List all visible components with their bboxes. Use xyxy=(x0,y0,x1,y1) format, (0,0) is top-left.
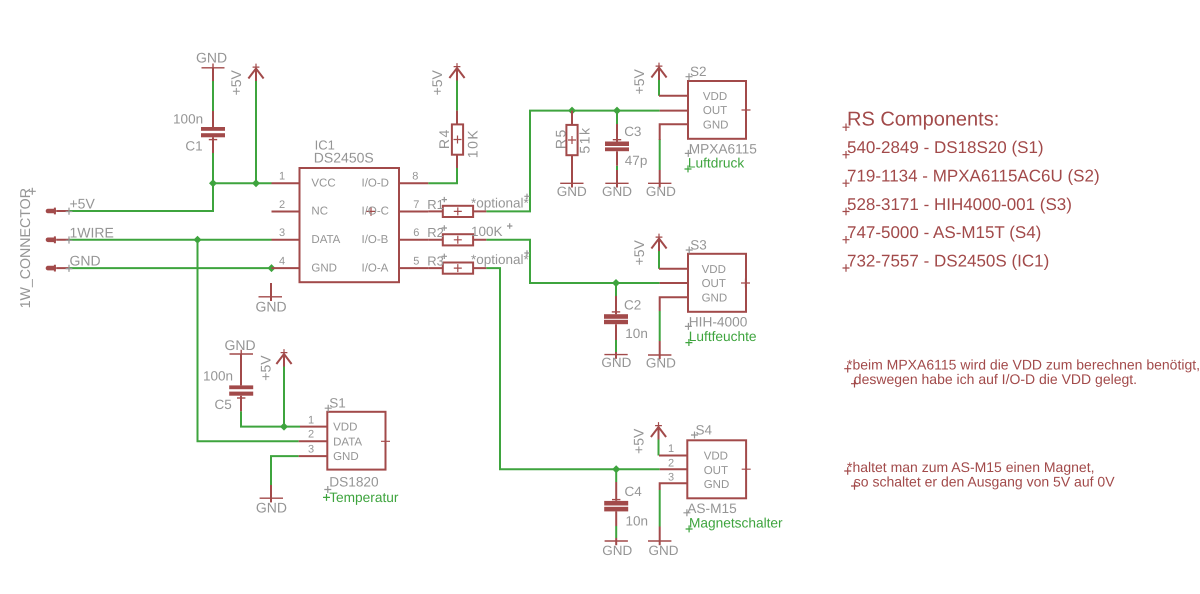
resistor R1 xyxy=(427,194,530,217)
sensor S1 DS1820 box xyxy=(325,396,390,470)
S3 pin OUT xyxy=(660,282,688,284)
connector pin GND xyxy=(46,265,73,272)
svg-text:so schaltet er den Ausgang von: so schaltet er den Ausgang von 5V auf 0V xyxy=(854,473,1115,489)
note AS-M15 magnet line 2 xyxy=(851,473,1115,490)
svg-text:2: 2 xyxy=(308,429,314,441)
svg-text:I/O-A: I/O-A xyxy=(362,262,389,274)
S1 pin 1 VDD xyxy=(300,414,327,426)
IC1 pin 5 I/O-A xyxy=(362,255,429,274)
svg-text:+5V: +5V xyxy=(70,196,96,212)
wire S4 GND drop xyxy=(659,490,661,527)
svg-text:GND: GND xyxy=(602,184,632,199)
svg-text:2: 2 xyxy=(279,199,285,211)
IC1 pin 4 GND xyxy=(272,255,337,274)
svg-text:GND: GND xyxy=(646,184,676,199)
wire +5V arrow P1 drop xyxy=(255,81,257,183)
resistor R2 value 100K xyxy=(427,223,512,245)
svg-text:+5V: +5V xyxy=(258,355,274,381)
svg-text:GND: GND xyxy=(224,337,255,353)
junction on +5V net at arrow P1 xyxy=(252,179,260,187)
wire +5V arrow P5 to S4 VDD xyxy=(658,440,660,456)
IC1 pin 6 I/O-B xyxy=(362,227,429,246)
svg-text:GND: GND xyxy=(646,355,676,370)
svg-text:1WIRE: 1WIRE xyxy=(70,224,114,240)
svg-text:C2: C2 xyxy=(624,297,641,312)
svg-text:3: 3 xyxy=(308,443,314,455)
sensor S2 MPXA6115 box xyxy=(686,64,751,139)
svg-text:VDD: VDD xyxy=(704,451,728,463)
svg-text:100K: 100K xyxy=(471,224,503,239)
ground GND-A above C1 xyxy=(196,50,227,73)
connector name 1W_CONNECTOR xyxy=(18,188,36,309)
connector pin +5V xyxy=(46,208,73,215)
svg-text:I/O-C: I/O-C xyxy=(362,206,389,218)
junction S3 OUT net at C2 xyxy=(612,279,620,287)
svg-text:GND: GND xyxy=(702,292,728,304)
resistor R4 value 10K xyxy=(436,111,481,168)
svg-text:1W_CONNECTOR: 1W_CONNECTOR xyxy=(18,188,34,308)
junction S2 OUT net at R5 xyxy=(568,107,576,115)
ground GND-B above C5 xyxy=(224,337,255,358)
svg-text:5: 5 xyxy=(413,255,419,267)
svg-text:AS-M15: AS-M15 xyxy=(687,501,737,516)
wire C2 bottom to GND xyxy=(615,340,617,352)
note MPXA6115 VDD line 2 xyxy=(851,371,1137,388)
wire S2 OUT net: R1 to vertical riser to S2 xyxy=(486,111,659,212)
svg-text:C3: C3 xyxy=(624,124,641,139)
svg-text:8: 8 xyxy=(412,171,418,183)
ground GND-D below C3 xyxy=(602,170,632,199)
svg-text:100n: 100n xyxy=(203,369,233,384)
svg-text:Temperatur: Temperatur xyxy=(329,490,399,505)
supply +5V arrow P6 above S1 xyxy=(258,349,292,381)
svg-text:NC: NC xyxy=(311,206,328,218)
wire R4 bottom to IC1 pin 8 xyxy=(428,168,457,183)
svg-text:2: 2 xyxy=(668,457,674,469)
svg-text:Luftfeuchte: Luftfeuchte xyxy=(689,329,757,344)
svg-text:DS2450S: DS2450S xyxy=(314,150,374,166)
svg-text:MPXA6115: MPXA6115 xyxy=(689,142,758,157)
ground GND-F below C2 xyxy=(601,352,631,370)
svg-text:GND: GND xyxy=(333,451,359,463)
svg-text:I/O-B: I/O-B xyxy=(362,234,389,246)
svg-text:DATA: DATA xyxy=(333,436,362,448)
wire +5V net from connector to IC1 VCC xyxy=(69,183,272,211)
svg-text:1: 1 xyxy=(308,414,314,426)
svg-text:4: 4 xyxy=(279,255,285,267)
svg-text:GND: GND xyxy=(557,184,587,199)
svg-text:R4: R4 xyxy=(436,128,452,149)
svg-text:VDD: VDD xyxy=(702,264,726,276)
ground GND-E below S2 xyxy=(646,170,676,199)
svg-text:S4: S4 xyxy=(696,422,713,437)
supply +5V arrow P4 above S3 xyxy=(631,234,667,266)
wire C3 bottom to GND xyxy=(616,166,618,170)
svg-text:540-2849 - DS18S20 (S1): 540-2849 - DS18S20 (S1) xyxy=(847,138,1044,157)
IC1 pin 3 DATA xyxy=(272,227,341,246)
capacitor C4 value 10n xyxy=(604,482,648,528)
svg-text:C1: C1 xyxy=(185,138,202,153)
connector pin 1WIRE xyxy=(46,236,73,243)
svg-text:719-1134 - MPXA6115AC6U (S2): 719-1134 - MPXA6115AC6U (S2) xyxy=(847,167,1100,186)
S4 pin 3 GND xyxy=(660,472,688,490)
ground GND-K below S1 pin 3 xyxy=(256,485,287,515)
svg-text:732-7557 - DS2450S (IC1): 732-7557 - DS2450S (IC1) xyxy=(847,251,1049,270)
svg-text:51k: 51k xyxy=(577,127,593,154)
ground GND-J below IC1 pin 4 xyxy=(255,283,286,314)
svg-text:+5V: +5V xyxy=(631,239,647,265)
supply +5V arrow P5 above S4 xyxy=(631,422,667,454)
svg-text:GND: GND xyxy=(602,543,632,558)
supply +5V arrow P2 above R4 xyxy=(429,63,465,95)
svg-text:I/O-D: I/O-D xyxy=(362,177,389,189)
connector net label +5V xyxy=(70,196,96,212)
wire 1WIRE net from connector to IC1 DATA xyxy=(69,239,272,241)
junction on GND net at IC1 pin 4 xyxy=(268,264,276,272)
S2 label Luftdruck xyxy=(685,155,745,172)
S3 name HIH-4000 xyxy=(685,315,748,330)
S3 label Luftfeuchte xyxy=(685,329,756,346)
svg-text:GND: GND xyxy=(704,479,730,491)
wire S3 OUT net: R2 to vertical riser to S3 xyxy=(486,240,659,283)
wire +5V arrow P2 to R4 top xyxy=(456,81,458,111)
svg-text:Luftdruck: Luftdruck xyxy=(688,155,744,170)
svg-text:+5V: +5V xyxy=(631,68,647,94)
svg-text:HIH-4000: HIH-4000 xyxy=(689,315,748,330)
svg-text:GND: GND xyxy=(649,543,679,558)
svg-text:3: 3 xyxy=(279,227,285,239)
resistor R5 value 51k xyxy=(553,111,593,188)
resistor R3 xyxy=(427,250,530,273)
svg-text:1: 1 xyxy=(279,171,285,183)
junction S4 OUT net at C4 xyxy=(612,465,620,473)
ground GND-I below S4 xyxy=(648,527,679,559)
note MPXA6115 VDD line 1 xyxy=(844,357,1200,373)
wire C2 top xyxy=(615,283,617,296)
svg-text:GND: GND xyxy=(196,50,227,66)
svg-text:GND: GND xyxy=(255,298,286,314)
note line 719-1134 MPXA6115AC6U xyxy=(843,167,1100,188)
S2 name MPXA6115 xyxy=(685,142,758,157)
svg-text:100n: 100n xyxy=(173,112,203,127)
S4 label Magnetschalter xyxy=(686,515,783,532)
wire +5V arrow P3 to S2 VDD xyxy=(658,80,660,96)
wire C5 bottom to S1 VDD xyxy=(241,411,300,426)
svg-text:528-3171 - HIH4000-001 (S3): 528-3171 - HIH4000-001 (S3) xyxy=(847,195,1072,214)
svg-text:C5: C5 xyxy=(215,397,232,412)
S2 pin GND xyxy=(660,124,688,140)
svg-text:GND: GND xyxy=(256,499,287,515)
wire S2 GND drop xyxy=(659,139,661,170)
svg-text:R1: R1 xyxy=(427,197,444,212)
S1 pin 3 GND xyxy=(299,443,328,456)
svg-text:OUT: OUT xyxy=(703,105,727,117)
wire 1WIRE branch down to S1 DATA xyxy=(198,240,299,441)
S2 pin OUT xyxy=(660,110,688,112)
S1 name DS1820 xyxy=(324,475,379,494)
S3 pin VDD xyxy=(659,268,688,270)
svg-text:Magnetschalter: Magnetschalter xyxy=(689,515,783,530)
note AS-M15 magnet line 1 xyxy=(844,459,1094,475)
sensor S4 AS-M15 box xyxy=(687,422,750,498)
svg-text:1: 1 xyxy=(668,443,674,455)
note line 747-5000 AS-M15T xyxy=(843,223,1042,244)
svg-text:OUT: OUT xyxy=(704,465,728,477)
svg-text:7: 7 xyxy=(413,199,419,211)
S4 pin 2 OUT xyxy=(660,457,688,469)
IC1 pin 8 I/O-D xyxy=(362,171,429,190)
svg-text:OUT: OUT xyxy=(702,278,726,290)
wire S1 GND pin to GND symbol xyxy=(271,456,299,485)
svg-text:*optional*: *optional* xyxy=(471,252,530,267)
wire C3 top xyxy=(616,111,618,124)
svg-text:+5V: +5V xyxy=(631,428,647,454)
S4 pin 1 VDD xyxy=(659,443,687,456)
wire C1 top to GND symbol xyxy=(212,81,214,111)
capacitor C5 value 100n xyxy=(203,354,253,412)
svg-text:DS1820: DS1820 xyxy=(329,475,379,490)
svg-text:GND: GND xyxy=(703,119,729,131)
IC1 pin 2 NC xyxy=(272,199,329,218)
junction on 1WIRE net xyxy=(194,236,202,244)
svg-text:47p: 47p xyxy=(625,153,648,168)
svg-text:RS Components:: RS Components: xyxy=(847,108,999,130)
ground GND-G below S3 xyxy=(646,341,676,370)
svg-text:10n: 10n xyxy=(625,326,648,341)
IC1 pin 1 VCC xyxy=(272,171,336,190)
svg-text:C4: C4 xyxy=(625,484,643,499)
wire C1 bottom to +5V net xyxy=(212,153,214,183)
ground GND-H below C4 xyxy=(602,538,632,558)
S2 pin VDD xyxy=(659,95,688,97)
note RS Components heading xyxy=(843,108,1000,131)
note line 732-7557 DS2450S xyxy=(843,251,1050,272)
svg-text:3: 3 xyxy=(668,472,674,484)
junction on +5V net at C1 xyxy=(209,179,217,187)
capacitor C3 value 47p xyxy=(605,124,647,168)
wire GND net from connector to IC1 GND xyxy=(69,267,272,269)
wire C4 bottom to GND xyxy=(615,526,617,538)
capacitor C2 value 10n xyxy=(604,296,648,341)
IC1 pin 7 I/O-C xyxy=(362,199,429,218)
svg-text:VDD: VDD xyxy=(703,91,727,103)
svg-text:R5: R5 xyxy=(553,128,569,149)
S4 name AS-M15 xyxy=(683,501,737,516)
svg-text:*optional*: *optional* xyxy=(471,195,530,210)
svg-text:VCC: VCC xyxy=(311,177,335,189)
IC op DS2450 U=IC1 box xyxy=(300,137,400,282)
supply +5V arrow P1 xyxy=(228,64,264,96)
ground GND-C below R5 xyxy=(557,179,587,199)
svg-text:+5V: +5V xyxy=(429,69,445,95)
svg-text:DATA: DATA xyxy=(311,234,340,246)
svg-text:747-5000 - AS-M15T (S4): 747-5000 - AS-M15T (S4) xyxy=(847,223,1041,242)
sensor S3 HIH-4000 box xyxy=(686,237,750,311)
svg-text:GND: GND xyxy=(311,262,337,274)
wire S3 GND drop xyxy=(659,311,661,341)
svg-text:R3: R3 xyxy=(427,254,444,269)
wire +5V arrow P6 drop to S1 VDD xyxy=(283,366,285,426)
S1 label Temperatur xyxy=(323,490,399,505)
wire +5V arrow P4 to S3 VDD xyxy=(658,251,660,269)
connector net label 1WIRE xyxy=(70,224,114,240)
svg-text:deswegen habe ich auf I/O-D di: deswegen habe ich auf I/O-D die VDD gele… xyxy=(854,371,1137,387)
junction S1 VDD net at arrow P6 xyxy=(280,423,288,431)
capacitor C1 xyxy=(173,68,225,154)
supply +5V arrow P3 above S2 xyxy=(631,63,667,95)
note line 528-3171 HIH4000-001 xyxy=(843,195,1072,216)
svg-text:GND: GND xyxy=(601,355,631,370)
svg-text:VDD: VDD xyxy=(333,422,357,434)
wire S4 OUT net: R3 to vertical riser to S4 xyxy=(486,268,659,469)
svg-text:R2: R2 xyxy=(427,225,444,240)
svg-text:10K: 10K xyxy=(465,129,481,158)
svg-text:+5V: +5V xyxy=(228,69,244,95)
S3 pin GND xyxy=(660,297,688,311)
connector net label GND xyxy=(70,253,101,269)
svg-text:GND: GND xyxy=(70,253,101,269)
wire C4 top xyxy=(615,469,617,482)
svg-text:6: 6 xyxy=(413,227,419,239)
note line 540-2849 DS18S20 xyxy=(843,138,1044,159)
S1 pin 2 DATA xyxy=(299,429,328,442)
junction S2 OUT net at C3 xyxy=(613,107,621,115)
svg-text:10n: 10n xyxy=(626,513,649,528)
